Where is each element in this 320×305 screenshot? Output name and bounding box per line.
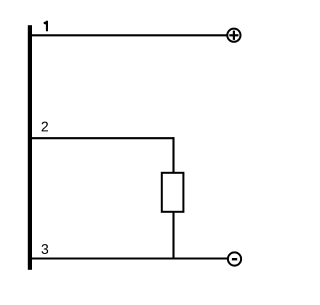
terminal + (positive terminal circle): [227, 29, 240, 42]
node 2 label: [42, 122, 48, 132]
bus bar (vertical supply rail): [28, 25, 32, 270]
node 1 label: [44, 21, 48, 32]
minus sign of - terminal: [232, 258, 237, 260]
terminal - (negative terminal circle): [228, 252, 241, 265]
wire 3 (bus to - terminal): [31, 257, 227, 259]
node 3 label: [42, 244, 49, 254]
wire 2 horizontal (bus to resistor branch): [31, 137, 175, 139]
wire 2 vertical drop to resistor: [172, 137, 174, 172]
wire 1 (bus to + terminal): [31, 34, 227, 36]
resistor R1 (box symbol): [162, 173, 184, 212]
wire from resistor to wire 3: [172, 213, 174, 260]
plus sign of + terminal: [229, 31, 238, 40]
